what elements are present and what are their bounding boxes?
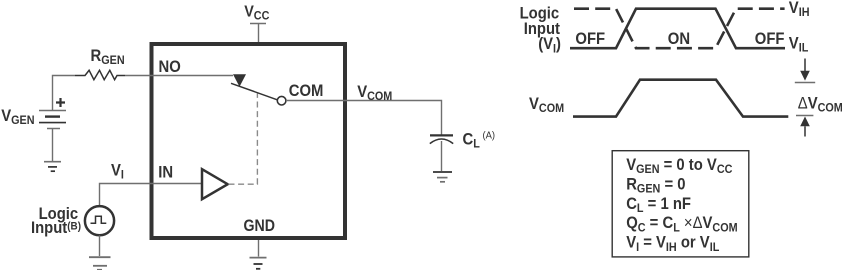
svg-text:NO: NO [159, 58, 181, 76]
conditions box [612, 151, 749, 257]
logic input source circle [85, 206, 114, 235]
ground below switch box [250, 258, 267, 269]
VCOM waveform [573, 80, 788, 117]
logic input dashed waveform [574, 9, 785, 49]
wire capacitor to ground [441, 141, 443, 171]
svg-text:COM: COM [289, 82, 324, 100]
switch pole triangle [233, 74, 246, 87]
wire battery to ground [52, 129, 54, 161]
resistor RGEN [75, 70, 125, 79]
switch box outline [152, 44, 346, 238]
dashed actuator link [229, 94, 258, 185]
ground below VGEN [44, 162, 61, 172]
battery VGEN [39, 111, 66, 129]
svg-text:OFF: OFF [755, 31, 785, 49]
ground below CL [433, 172, 452, 182]
ground below logic input [89, 257, 111, 270]
wire source to ground [99, 235, 101, 256]
svg-text:ON: ON [668, 31, 690, 49]
pulse symbol [91, 216, 107, 223]
logic input solid waveform [570, 9, 785, 49]
svg-text:GND: GND [244, 217, 276, 235]
battery VGEN plus sign [56, 98, 65, 107]
buffer U1 [202, 169, 228, 199]
delta dimension up arrow [800, 117, 810, 137]
capacitor CL [430, 135, 453, 143]
svg-text:(VI): (VI) [538, 36, 561, 56]
label Logic Input (B) [31, 206, 81, 237]
wire GND pin to ground [258, 240, 260, 257]
wire logic input to buffer IN [100, 184, 202, 207]
svg-text:OFF: OFF [575, 31, 605, 49]
wire VGEN to switch pole [53, 76, 234, 111]
delta dimension down arrow [800, 59, 810, 81]
COM terminal circle [277, 96, 286, 105]
svg-text:IN: IN [158, 164, 173, 182]
wire COM to VCOM node [286, 101, 442, 136]
switch lever [231, 83, 278, 100]
label Logic Input (VI) [520, 5, 561, 56]
VCC terminal stub [250, 24, 266, 43]
svg-text:CL = 1 nF: CL = 1 nF [626, 195, 691, 215]
delta tick lower [796, 115, 813, 117]
delta tick upper [795, 82, 815, 84]
